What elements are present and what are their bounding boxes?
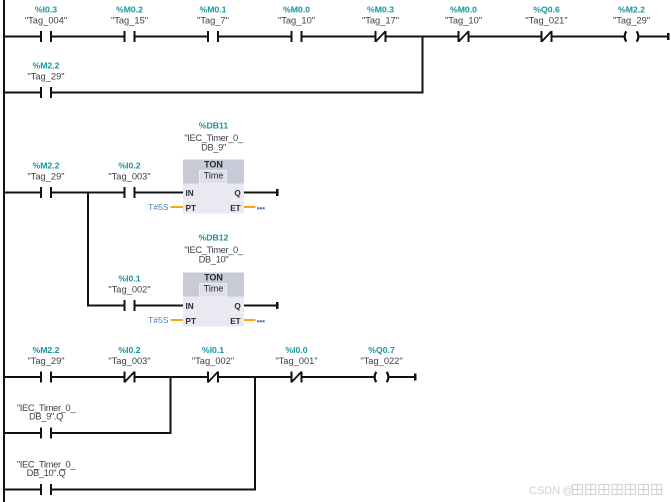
svg-text:"Tag_10": "Tag_10" (445, 16, 482, 26)
svg-text:ET: ET (230, 204, 240, 213)
svg-text:"Tag_002": "Tag_002" (108, 285, 150, 295)
svg-text:%M2.2: %M2.2 (32, 161, 59, 171)
svg-text:"Tag_003": "Tag_003" (108, 172, 150, 182)
svg-text:"Tag_17": "Tag_17" (362, 16, 399, 26)
svg-text:DB_9": DB_9" (201, 143, 226, 153)
svg-text:%I0.0: %I0.0 (285, 345, 307, 355)
svg-text:"Tag_29": "Tag_29" (27, 356, 64, 366)
svg-text:"Tag_002": "Tag_002" (192, 356, 234, 366)
svg-text:TON: TON (204, 273, 223, 283)
svg-text:Time: Time (204, 284, 224, 294)
svg-text:"Tag_004": "Tag_004" (25, 16, 67, 26)
svg-text:%M0.0: %M0.0 (450, 5, 477, 15)
svg-text:"Tag_021": "Tag_021" (525, 16, 567, 26)
svg-text:DB_9".Q: DB_9".Q (29, 411, 63, 421)
svg-text:%I0.1: %I0.1 (202, 345, 224, 355)
svg-text:%M0.1: %M0.1 (199, 5, 226, 15)
svg-text:"Tag_29": "Tag_29" (27, 71, 64, 81)
svg-text:%I0.2: %I0.2 (118, 345, 140, 355)
svg-text:%M0.2: %M0.2 (116, 5, 143, 15)
svg-text:PT: PT (186, 204, 196, 213)
svg-text:"IEC_Timer_0_: "IEC_Timer_0_ (184, 245, 244, 255)
svg-text:ET: ET (230, 317, 240, 326)
svg-text:"IEC_Timer_0_: "IEC_Timer_0_ (184, 133, 244, 143)
svg-text:IN: IN (186, 189, 194, 198)
svg-text:%I0.3: %I0.3 (35, 5, 57, 15)
svg-text:%M0.3: %M0.3 (367, 5, 394, 15)
svg-text:"Tag_29": "Tag_29" (27, 172, 64, 182)
svg-text:"Tag_7": "Tag_7" (197, 16, 229, 26)
svg-text:%DB11: %DB11 (199, 120, 229, 130)
svg-text:DB_10".Q: DB_10".Q (27, 468, 66, 478)
svg-text:Q: Q (234, 302, 241, 311)
svg-text:%I0.1: %I0.1 (118, 274, 140, 284)
svg-text:Q: Q (234, 189, 241, 198)
svg-text:%Q0.7: %Q0.7 (368, 345, 395, 355)
svg-text:"Tag_15": "Tag_15" (111, 16, 148, 26)
svg-text:%DB12: %DB12 (199, 232, 229, 242)
svg-text:%M0.0: %M0.0 (283, 5, 310, 15)
svg-text:"Tag_022": "Tag_022" (360, 356, 402, 366)
svg-text:"Tag_001": "Tag_001" (275, 356, 317, 366)
svg-text:Time: Time (204, 171, 224, 181)
svg-text:TON: TON (204, 160, 223, 170)
svg-text:T#5S: T#5S (148, 315, 169, 325)
svg-text:%M2.2: %M2.2 (32, 60, 59, 70)
svg-text:%I0.2: %I0.2 (118, 161, 140, 171)
svg-text:DB_10": DB_10" (199, 255, 229, 265)
svg-text:"Tag_10": "Tag_10" (278, 16, 315, 26)
svg-text:"Tag_003": "Tag_003" (108, 356, 150, 366)
svg-text:IN: IN (186, 302, 194, 311)
svg-text:T#5S: T#5S (148, 202, 169, 212)
svg-text:"Tag_29": "Tag_29" (613, 16, 650, 26)
svg-text:%M2.2: %M2.2 (618, 5, 645, 15)
svg-text:CSDN: CSDN (529, 485, 560, 497)
svg-text:%Q0.6: %Q0.6 (533, 5, 560, 15)
svg-text:%M2.2: %M2.2 (32, 345, 59, 355)
svg-text:PT: PT (186, 317, 196, 326)
